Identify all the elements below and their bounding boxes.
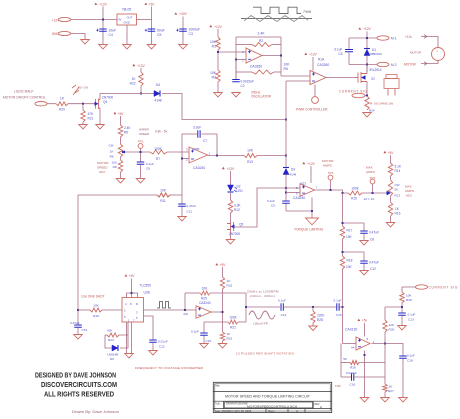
svg-text:R20: R20: [59, 108, 65, 112]
connector +12v: [58, 17, 71, 21]
node +12V R22: [132, 64, 135, 66]
svg-text:R23: R23: [301, 181, 307, 185]
svg-text:AMPS: AMPS: [366, 170, 375, 174]
node +5V divider: [215, 263, 218, 265]
resistor R7: [150, 150, 167, 154]
svg-text:M-1: M-1: [391, 37, 397, 41]
svg-text:TP2: TP2: [138, 140, 144, 144]
ground C13: [398, 326, 407, 330]
svg-text:R13: R13: [395, 194, 401, 198]
wire Q4 source to ground: [99, 108, 101, 125]
wire opamp2 vplus: [310, 166, 312, 183]
capacitor C51 left column: [74, 325, 82, 327]
svg-text:D4: D4: [156, 83, 160, 87]
capacitor C5: [148, 29, 156, 31]
wire M-1 horizontal: [349, 37, 377, 39]
ground Q5: [226, 240, 235, 244]
resistor R1: [216, 37, 220, 50]
connector control input: [35, 102, 47, 106]
svg-text:4148: 4148: [290, 172, 297, 176]
node +5V label top: [144, 3, 147, 5]
waveform sine glyph: [249, 311, 275, 319]
svg-text:C18: C18: [407, 359, 413, 363]
svg-text:CA3130: CA3130: [345, 327, 357, 331]
svg-text:DISCOVERCIRCUITS.COM: DISCOVERCIRCUITS.COM: [41, 380, 117, 389]
svg-text:R-.05 OHMS 1W: R-.05 OHMS 1W: [370, 102, 393, 106]
svg-text:R23: R23: [227, 337, 233, 341]
svg-text:D3: D3: [291, 168, 295, 172]
resistor R15: [348, 191, 362, 195]
svg-text:D5- ON: D5- ON: [78, 85, 88, 89]
diode D4 4148: [154, 91, 160, 97]
svg-text:10K: 10K: [93, 303, 99, 307]
resistor R30: [383, 320, 387, 332]
svg-text:AMPS: AMPS: [323, 164, 332, 168]
node +12V led: [222, 167, 225, 169]
svg-text:U2B: U2B: [144, 291, 150, 295]
node +12V opamp2: [302, 162, 305, 164]
wire R11 to feedback column: [170, 194, 182, 196]
svg-text:R21: R21: [88, 117, 94, 121]
junction one-shot input: [77, 309, 79, 311]
capacitor C3: [179, 29, 187, 31]
svg-text:+12V: +12V: [307, 162, 316, 166]
svg-text:LS202 9IALP: LS202 9IALP: [14, 90, 34, 94]
wire divider top: [222, 267, 224, 277]
feedback left vertical 3130: [340, 344, 342, 378]
svg-text:F1B: F1B: [335, 384, 341, 388]
svg-text:R22: R22: [130, 82, 136, 86]
svg-text:0.1uF: 0.1uF: [267, 199, 275, 203]
op-amp U2A CA3240: [189, 147, 208, 163]
svg-text:0.47uF: 0.47uF: [369, 260, 379, 264]
svg-text:PWM CONTROLLER: PWM CONTROLLER: [296, 108, 328, 112]
svg-text:10K: 10K: [346, 235, 353, 239]
svg-text:10K: 10K: [247, 148, 254, 152]
svg-text:Q4: Q4: [103, 100, 107, 104]
svg-text:R24: R24: [108, 338, 114, 342]
waveform square oneshot out: [157, 302, 171, 309]
svg-text:Drawn By: Dave Johnson: Drawn By: Dave Johnson: [72, 410, 119, 414]
transistor Q5 2N7000: [230, 213, 232, 221]
svg-text:10K: 10K: [346, 265, 353, 269]
svg-text:R: R: [136, 302, 138, 306]
wire R15 to pot wiper: [362, 192, 386, 194]
capacitor C12b: [149, 340, 157, 342]
wire bus pwm plus vertical: [285, 81, 287, 167]
svg-text:C9: C9: [271, 204, 275, 208]
ground R28: [309, 326, 318, 330]
svg-text:0.1uF: 0.1uF: [278, 298, 286, 302]
svg-text:MOTOR SPEED AND TORQUE LIMITIN: MOTOR SPEED AND TORQUE LIMITING CIRCUIT: [225, 394, 310, 398]
capacitor C12 rc: [360, 261, 368, 263]
svg-text:R2: R2: [259, 39, 263, 43]
resistor R3: [216, 70, 220, 82]
resistor R20: [56, 102, 68, 106]
svg-text:M-2: M-2: [391, 63, 397, 67]
wire osc feedback right vertical: [280, 37, 282, 76]
svg-text:3.3uF: 3.3uF: [193, 126, 201, 130]
ground Q4: [96, 125, 105, 129]
rc stage 2 tee: [343, 252, 365, 261]
capacitor C10: [203, 322, 205, 333]
svg-text:R13: R13: [247, 160, 253, 164]
svg-text:100K: 100K: [229, 315, 237, 319]
svg-text:12 = 1A: 12 = 1A: [364, 197, 376, 201]
svg-text:R6: R6: [284, 67, 288, 71]
wire +5V to R14: [390, 155, 392, 163]
wire 555 pin5 to C12b: [144, 316, 154, 340]
capacitor C6 snubber: [348, 38, 350, 49]
svg-text:R2B: R2B: [194, 147, 200, 151]
diode D1 flyback: [364, 50, 370, 56]
svg-text:+12V: +12V: [99, 3, 108, 7]
svg-text:C16: C16: [350, 383, 356, 387]
wire plus input from feedback column: [182, 158, 189, 160]
resistor R16: [390, 196, 392, 202]
ground C3: [179, 45, 188, 49]
wire osc output: [262, 55, 281, 57]
resistor R21b lowpass: [238, 321, 246, 323]
svg-text:5.1K: 5.1K: [395, 164, 402, 168]
svg-text:0.47uF: 0.47uF: [369, 230, 379, 234]
wire comparator output: [372, 344, 404, 357]
capacitor C16 feedback: [341, 376, 351, 378]
svg-text:C8: C8: [146, 166, 150, 170]
svg-text:ALL RIGHTS RESERVED: ALL RIGHTS RESERVED: [44, 389, 114, 398]
wire R30 top: [384, 307, 386, 320]
wire C3 vertical: [182, 17, 184, 45]
ground C8: [136, 179, 145, 183]
svg-text:C15: C15: [336, 313, 342, 317]
svg-text:R29: R29: [406, 298, 412, 302]
svg-text:C10: C10: [206, 339, 212, 343]
svg-text:MOTOR: MOTOR: [404, 63, 417, 67]
connector M-2: [377, 62, 389, 66]
ground C2: [232, 93, 241, 97]
resistor R6 feedback lower: [236, 71, 252, 73]
svg-text:+12v: +12v: [405, 35, 412, 39]
svg-text:C51: C51: [82, 328, 88, 332]
wire bus below D3: [285, 175, 287, 202]
svg-text:CURRENT SIG: CURRENT SIG: [339, 90, 368, 94]
svg-text:A4: A4: [351, 345, 355, 349]
resistor R24 current sense: [365, 96, 369, 110]
ground C18: [399, 398, 408, 402]
svg-text:0.1uF: 0.1uF: [408, 312, 416, 316]
capacitor C2 oscillator: [235, 60, 237, 80]
svg-text:+: +: [436, 50, 438, 54]
resistor R8 lower: [120, 157, 122, 160]
wire fv output: [212, 311, 223, 313]
svg-text:+5V: +5V: [129, 274, 136, 278]
svg-text:CA3240: CA3240: [193, 166, 205, 170]
capacitor C9: [282, 201, 290, 203]
svg-text:DESIGNED BY DAVE JOHNSON: DESIGNED BY DAVE JOHNSON: [35, 371, 116, 380]
svg-text:10K: 10K: [210, 40, 217, 44]
wire 555 output: [144, 309, 197, 311]
svg-text:R26: R26: [350, 366, 356, 370]
svg-text:2N7000: 2N7000: [102, 96, 113, 100]
capacitor C18 output: [399, 356, 407, 358]
wire pwm output to gate: [326, 77, 356, 79]
wire opamp2 output: [315, 190, 349, 193]
svg-text:AMPS: AMPS: [405, 189, 414, 193]
svg-text:Sheet: Sheet: [268, 410, 275, 413]
svg-text:ADJ: ADJ: [99, 170, 105, 174]
op-amp U3A CA3240 fv: [196, 306, 211, 319]
svg-text:220K: 220K: [317, 313, 325, 317]
svg-text:R1: R1: [212, 45, 216, 49]
wire R1 top: [217, 29, 219, 37]
svg-text:of: of: [296, 410, 298, 413]
svg-text:+12V: +12V: [214, 25, 223, 29]
svg-text:MOTOR: MOTOR: [410, 51, 422, 55]
transistor Q2 IRL2514 mosfet: [356, 72, 367, 83]
svg-text:C12: C12: [370, 267, 376, 271]
wire divider ground: [222, 341, 224, 344]
ground R16: [386, 223, 395, 227]
resistor R26 feedback: [341, 362, 350, 364]
waveform triangle baseline: [241, 18, 312, 20]
wire osc feedback left vertical: [235, 37, 237, 79]
svg-text:CW: CW: [109, 144, 114, 148]
svg-text:0.1uF: 0.1uF: [191, 330, 199, 334]
svg-text:ADJ: ADJ: [406, 194, 412, 198]
resistor R18: [340, 256, 344, 269]
svg-text:R16: R16: [395, 211, 401, 215]
svg-text:C6: C6: [338, 52, 342, 56]
wire comparator vminus to ground: [364, 351, 366, 398]
resistor R21: [82, 104, 84, 110]
diode D3 on bus: [283, 169, 289, 175]
svg-text:2.4K: 2.4K: [258, 32, 266, 36]
ground R3: [214, 93, 223, 97]
svg-text:CURRENT SIG: CURRENT SIG: [429, 285, 459, 289]
capacitor C8 wiper: [137, 162, 145, 164]
svg-text:R12: R12: [234, 208, 240, 212]
svg-text:MOTOR: MOTOR: [322, 159, 334, 163]
connector CURRENT SIG lower: [416, 285, 428, 289]
wire R27 ground: [384, 392, 386, 398]
svg-text:Q2: Q2: [371, 77, 375, 81]
wire +5V to R5: [120, 116, 122, 125]
svg-text:TORQUE LIMITING: TORQUE LIMITING: [294, 227, 324, 231]
svg-text:0.01uF: 0.01uF: [158, 339, 168, 343]
svg-text:CA3240: CA3240: [293, 196, 305, 200]
svg-text:PWM: PWM: [304, 10, 312, 14]
wire fv right vertical: [245, 293, 247, 322]
svg-text:TP3: TP3: [328, 171, 334, 175]
svg-text:+12V: +12V: [227, 167, 236, 171]
svg-text:C5: C5: [157, 33, 161, 37]
svg-text:1ms ONE SHOT: 1ms ONE SHOT: [81, 295, 105, 299]
node +5v comparator: [357, 319, 360, 321]
op-amp U2B CA3240 motor amps: [300, 184, 315, 197]
ground C4: [99, 45, 108, 49]
wire pwm vplus: [312, 57, 314, 71]
svg-text:12K: 12K: [389, 323, 395, 327]
diode D5 gate zener: [72, 85, 79, 95]
svg-text:100K: 100K: [351, 187, 359, 191]
wire +12v to regulator: [71, 19, 117, 21]
wire R11 line: [78, 194, 157, 196]
wire current sig to R29: [402, 287, 416, 292]
wire opamp2 vminus: [311, 198, 313, 219]
wire opamp1 output: [208, 155, 245, 157]
wire +5V rail vertical: [151, 7, 153, 45]
svg-text:+5V: +5V: [149, 3, 156, 7]
svg-text:+5V: +5V: [118, 112, 125, 116]
capacitor C15: [337, 303, 339, 311]
node +12V motor: [358, 27, 361, 29]
resistor R32: [220, 277, 224, 289]
wire bus to comparator minus: [343, 343, 357, 345]
node +5V max amps: [383, 151, 386, 153]
resistor R17: [340, 226, 344, 239]
ground sense resistor: [363, 113, 372, 117]
wire +12V rail vertical: [102, 7, 104, 45]
svg-text:TLC555: TLC555: [140, 284, 152, 288]
svg-text:C8: C8: [370, 237, 374, 241]
svg-text:R18: R18: [347, 259, 353, 263]
ground regulator: [123, 45, 132, 49]
wire wiper to R7: [125, 151, 150, 153]
svg-text:R17: R17: [347, 229, 353, 233]
svg-text:FREQUENCY TO VOLTAGE CONVERTER: FREQUENCY TO VOLTAGE CONVERTER: [135, 366, 204, 370]
svg-text:MOTORSPEEDCONTROL5.SCH: MOTORSPEEDCONTROL5.SCH: [247, 404, 297, 408]
svg-text:GND: GND: [124, 20, 130, 24]
svg-text:D1: D1: [372, 48, 376, 52]
ground C12: [360, 271, 369, 275]
svg-text:DRAWN/FILENAME:: DRAWN/FILENAME:: [226, 402, 249, 405]
node +5V 555: [124, 274, 127, 276]
wire 555 vcc pins: [127, 293, 138, 298]
svg-text:0.8v - 5v: 0.8v - 5v: [155, 129, 168, 133]
wire R16 ground: [390, 216, 392, 223]
motor M1 circle: [432, 48, 445, 61]
wire R28 ground: [312, 323, 314, 326]
wire rc bus top: [342, 193, 344, 226]
svg-text:2N7000: 2N7000: [229, 232, 240, 236]
junction +12V rail: [102, 19, 104, 21]
svg-text:R5: R5: [124, 131, 128, 135]
resistor R23b: [220, 332, 224, 341]
svg-text:R24: R24: [369, 109, 375, 113]
IC U2 555 one-shot box: [122, 298, 144, 323]
svg-text:Title:: Title:: [215, 383, 221, 387]
svg-text:CA3260: CA3260: [317, 63, 329, 67]
resistor R5: [118, 125, 122, 137]
wire C9 to vminus ground: [286, 210, 312, 212]
svg-text:+5V: +5V: [388, 151, 395, 155]
resistor R2 feedback: [236, 44, 252, 46]
svg-text:0.47uF: 0.47uF: [70, 321, 80, 325]
wire R3 to ground: [217, 82, 219, 92]
feedback loop R24a box: [105, 334, 107, 336]
svg-text:C3: C3: [189, 32, 193, 36]
svg-text:1K: 1K: [110, 149, 114, 153]
ground 555: [125, 354, 134, 358]
svg-text:R11: R11: [160, 199, 166, 203]
ground input: [81, 40, 90, 44]
capacitor C14: [281, 303, 283, 311]
wire pwm vminus to testpoint: [314, 85, 316, 98]
arrow motor return: [421, 62, 427, 66]
transistor Q4 2N7000: [94, 99, 100, 110]
node +12V oscillator: [209, 25, 212, 27]
svg-text:FILE:: FILE:: [215, 403, 221, 406]
title block lines: [213, 391, 331, 412]
wire motor top: [427, 37, 438, 48]
arrow motor +12v: [421, 35, 427, 39]
wire R5 to pot: [120, 137, 122, 144]
svg-text:0.1uF: 0.1uF: [334, 48, 342, 52]
ground R21: [82, 122, 84, 125]
wire motor +12 vertical: [366, 32, 368, 73]
wire C14 to C15: [284, 306, 337, 308]
wire R1-R3 junction to opamp: [217, 50, 219, 70]
svg-text:R3: R3: [212, 76, 216, 80]
svg-text:4148: 4148: [154, 98, 161, 102]
svg-text:10K: 10K: [202, 286, 209, 290]
wire Q4 drain: [99, 94, 101, 100]
ground C8b: [360, 241, 369, 245]
wire R29 to junction: [401, 303, 403, 313]
svg-text:5K: 5K: [395, 187, 399, 191]
svg-text:10K: 10K: [210, 71, 217, 75]
rc stage 1 tee: [343, 223, 365, 231]
wire C15 to comparator bus: [339, 306, 342, 308]
wire input to R19: [78, 309, 90, 311]
wire bus to pwm plus: [286, 80, 310, 82]
wire Q5 gate to opamp2: [234, 188, 301, 227]
wire R19 to 555: [102, 309, 122, 311]
resistor R11: [157, 193, 170, 197]
node +40V label: [174, 12, 177, 14]
svg-text:SPEED: SPEED: [139, 132, 150, 136]
op-amp U1A oscillator CA3260: [246, 48, 262, 63]
svg-text:Date: MONDAY, MAY 05, 2003: Date: MONDAY, MAY 05, 2003: [215, 409, 252, 413]
svg-text:10K: 10K: [284, 63, 291, 67]
svg-text:2.4K: 2.4K: [124, 126, 131, 130]
capacitor C4: [99, 29, 107, 31]
resistor R14: [388, 163, 392, 176]
svg-text:3.3K: 3.3K: [234, 203, 241, 207]
ground C11: [178, 217, 187, 221]
svg-text:Q5: Q5: [239, 222, 243, 226]
op-amp U4 CA3130: [356, 337, 370, 350]
op-amp U1B PWM CA3260: [310, 71, 326, 85]
waveform triangle wave: [244, 16, 308, 22]
svg-text:IN: IN: [119, 18, 122, 22]
node +5V speed divider: [113, 112, 116, 114]
package drawing TO-220: [386, 75, 397, 79]
svg-text:+12V: +12V: [363, 27, 372, 31]
svg-text:CW: CW: [395, 183, 400, 187]
wire osc out to pwm minus: [281, 75, 310, 77]
svg-text:R8: R8: [113, 165, 117, 169]
wire comparator vplus: [364, 323, 366, 337]
svg-text:C2: C2: [241, 84, 245, 88]
wire led to R12: [230, 193, 232, 200]
svg-text:MAX: MAX: [405, 184, 412, 188]
wire R13 to bus: [257, 155, 286, 157]
svg-text:IRL2514: IRL2514: [370, 68, 382, 72]
ground C12b: [149, 351, 158, 355]
svg-text:C12: C12: [159, 345, 165, 349]
capacitor C7 feedback: [182, 133, 197, 135]
